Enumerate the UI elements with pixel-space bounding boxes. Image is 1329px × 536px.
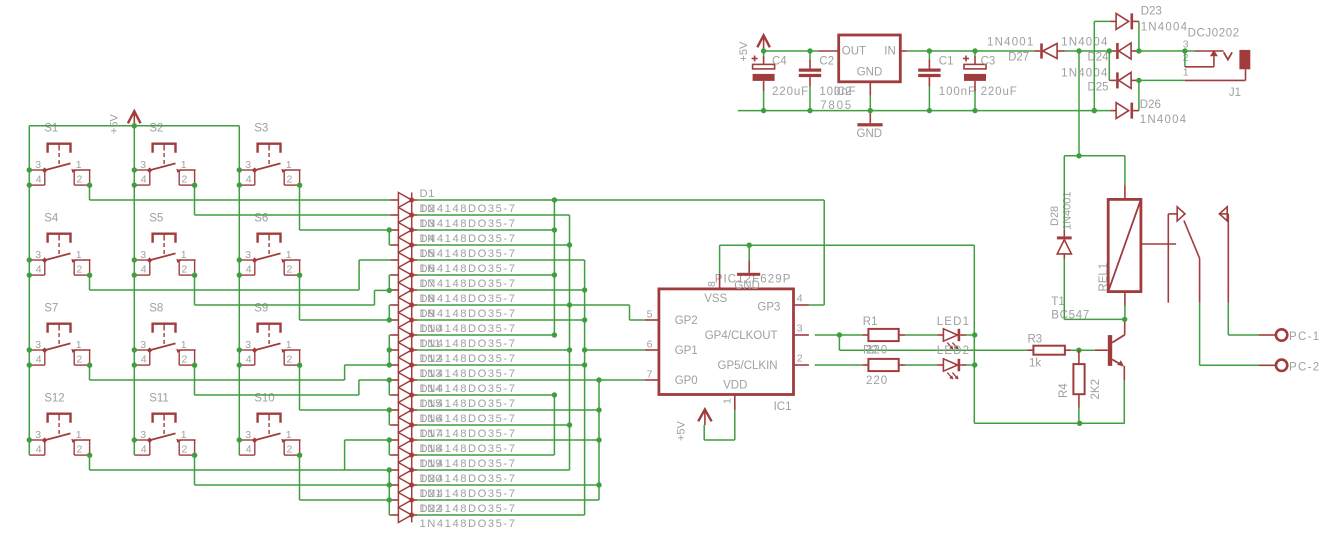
svg-text:4: 4 [36, 264, 42, 276]
wire bridge to J1 pin1 [1139, 79, 1185, 81]
svg-text:OUT: OUT [842, 45, 866, 57]
resistor R2 220 [862, 345, 905, 387]
supply +5V (power) [738, 35, 770, 61]
svg-text:1N4004: 1N4004 [1141, 22, 1188, 34]
svg-text:7: 7 [647, 368, 653, 380]
connector J1 DCJ0202 [1183, 27, 1251, 99]
svg-text:S12: S12 [44, 392, 64, 404]
svg-text:4: 4 [36, 174, 42, 186]
svg-text:1: 1 [76, 159, 82, 171]
switch S12 [29, 392, 90, 455]
svg-text:GP1: GP1 [675, 345, 698, 357]
svg-text:IC2: IC2 [834, 86, 852, 98]
diode D22 1N4148DO35-7 [390, 503, 516, 530]
svg-text:+5V: +5V [738, 41, 750, 62]
wire bridge to J1 pin3 [1139, 48, 1195, 53]
svg-text:D18: D18 [420, 443, 443, 455]
wire contact to PC-1 [1228, 303, 1259, 335]
wire R1 to LED1 [905, 334, 937, 336]
svg-text:1: 1 [76, 339, 82, 351]
wire GP4 to R1 and R3 [815, 332, 1027, 350]
supply +5V (keypad) [109, 111, 141, 134]
svg-text:D4: D4 [420, 233, 436, 245]
wire R2 to LED2 [905, 364, 937, 366]
diode D15 1N4148DO35-7 [390, 398, 516, 425]
svg-text:4: 4 [246, 444, 252, 456]
supply +5V (VDD) [676, 409, 735, 441]
svg-text:3: 3 [245, 339, 251, 351]
wire R3 to T1 base [1071, 348, 1095, 353]
svg-text:C4: C4 [772, 55, 787, 67]
diode D8 1N4148DO35-7 [390, 293, 516, 320]
capacitor C2 100nF [799, 51, 857, 111]
svg-text:GND: GND [857, 66, 883, 78]
svg-text:D28: D28 [1049, 206, 1061, 226]
svg-text:2: 2 [287, 444, 293, 456]
svg-text:R2: R2 [863, 345, 878, 357]
diode D23 1N4004 [1110, 6, 1188, 34]
switch S7 [29, 302, 90, 365]
svg-text:LED2: LED2 [937, 345, 971, 357]
svg-text:R1: R1 [863, 316, 878, 328]
svg-text:1N4001: 1N4001 [987, 37, 1034, 49]
svg-text:C1: C1 [939, 55, 954, 67]
svg-text:+5V: +5V [676, 420, 688, 441]
svg-text:S11: S11 [149, 392, 169, 404]
diode D13 1N4148DO35-7 [390, 368, 516, 395]
diode D27 1N4001 [987, 37, 1065, 64]
svg-text:4: 4 [141, 264, 147, 276]
svg-text:2: 2 [287, 354, 293, 366]
svg-text:D6: D6 [420, 263, 436, 275]
svg-text:3: 3 [35, 249, 41, 261]
relay REL1 coil [1098, 185, 1176, 305]
svg-text:6: 6 [647, 338, 653, 350]
svg-text:D15: D15 [420, 398, 443, 410]
svg-text:220uF: 220uF [772, 86, 809, 98]
diode D14 1N4148DO35-7 [390, 383, 516, 410]
wire V1a [417, 200, 557, 338]
svg-text:2: 2 [287, 174, 293, 186]
svg-text:S1: S1 [44, 122, 58, 134]
wire D27 to bridge [1065, 48, 1109, 53]
svg-text:2: 2 [77, 444, 83, 456]
svg-text:1: 1 [76, 429, 82, 441]
svg-text:R4: R4 [1058, 383, 1070, 398]
diode D3 1N4148DO35-7 [390, 218, 516, 245]
svg-text:VDD: VDD [723, 380, 747, 392]
svg-text:4: 4 [246, 354, 252, 366]
svg-text:1: 1 [1183, 66, 1189, 78]
svg-text:2: 2 [182, 354, 188, 366]
svg-text:D21: D21 [420, 488, 443, 500]
wire GP5 to R2 [815, 364, 863, 366]
svg-text:GP2: GP2 [675, 315, 698, 327]
svg-text:220: 220 [866, 375, 888, 387]
svg-text:3: 3 [140, 159, 146, 171]
LED LED2 [937, 345, 971, 380]
diode D20 1N4148DO35-7 [390, 473, 516, 500]
svg-text:D17: D17 [420, 428, 443, 440]
wire +5V bus to switch columns [29, 126, 239, 455]
svg-text:D23: D23 [1141, 6, 1162, 18]
wire T1 emitter to GND rail [1123, 381, 1125, 424]
switch S11 [134, 392, 195, 455]
relay contact (NC) [1219, 207, 1228, 303]
svg-text:GND: GND [857, 128, 883, 140]
svg-text:PC-2: PC-2 [1289, 361, 1320, 373]
svg-text:1: 1 [286, 159, 292, 171]
regulator IC2 7805 [819, 35, 908, 112]
svg-text:4: 4 [36, 444, 42, 456]
wire GND bus [738, 108, 1110, 113]
relay contact (NO) [1168, 207, 1199, 303]
svg-text:3: 3 [140, 429, 146, 441]
svg-text:1N4004: 1N4004 [1140, 114, 1187, 126]
svg-text:DCJ0202: DCJ0202 [1188, 27, 1240, 39]
svg-text:100nF: 100nF [939, 86, 976, 98]
svg-text:D20: D20 [420, 473, 443, 485]
svg-text:D9: D9 [420, 308, 436, 320]
transistor T1 BC547 [1051, 296, 1124, 381]
svg-text:GP0: GP0 [675, 375, 698, 387]
svg-text:+5V: +5V [109, 113, 121, 134]
svg-text:D27: D27 [1008, 52, 1029, 64]
svg-text:D14: D14 [420, 383, 443, 395]
svg-text:8: 8 [706, 281, 718, 287]
svg-text:D24: D24 [1087, 52, 1109, 64]
wire relay bottom [1124, 306, 1126, 320]
svg-text:3: 3 [245, 159, 251, 171]
svg-text:7805: 7805 [820, 100, 853, 112]
svg-text:S7: S7 [44, 302, 58, 314]
svg-text:3: 3 [140, 339, 146, 351]
diode D4 1N4148DO35-7 [390, 233, 516, 260]
svg-text:1N4004: 1N4004 [1061, 67, 1108, 79]
wire net GP1 V3 [417, 260, 645, 515]
diode D18 1N4148DO35-7 [390, 443, 516, 470]
svg-text:4: 4 [141, 174, 147, 186]
svg-text:1N4148DO35-7: 1N4148DO35-7 [420, 518, 517, 530]
wire bridge left risers [1092, 21, 1112, 113]
svg-text:1: 1 [181, 339, 187, 351]
switch S1 [29, 122, 90, 185]
wire D28 net [1064, 156, 1127, 322]
svg-text:D19: D19 [420, 458, 443, 470]
wire S1 to D1 [90, 185, 391, 200]
svg-text:2K2: 2K2 [1090, 379, 1102, 399]
svg-text:4: 4 [246, 264, 252, 276]
svg-text:D26: D26 [1140, 99, 1161, 111]
svg-text:D16: D16 [420, 413, 443, 425]
ground GND (IC1) [734, 245, 760, 292]
svg-text:1N4001: 1N4001 [1062, 191, 1074, 230]
diode D28 1N4001 [1049, 191, 1074, 258]
svg-text:D2: D2 [420, 203, 436, 215]
svg-text:D10: D10 [420, 323, 443, 335]
svg-text:2: 2 [77, 174, 83, 186]
svg-text:LED1: LED1 [937, 316, 971, 328]
wire V1b D14 D18 [417, 392, 557, 455]
svg-text:C2: C2 [819, 55, 834, 67]
svg-text:D22: D22 [420, 503, 443, 515]
wire contact to PC-2 [1200, 303, 1259, 366]
svg-text:S8: S8 [149, 302, 163, 314]
svg-text:1k: 1k [1029, 357, 1041, 369]
junction dots switch pin2 [87, 183, 302, 458]
wire IN rail [907, 48, 1034, 53]
svg-text:GP4/CLKOUT: GP4/CLKOUT [705, 330, 778, 342]
svg-text:S9: S9 [254, 302, 268, 314]
svg-text:D8: D8 [420, 293, 436, 305]
svg-text:4: 4 [246, 174, 252, 186]
wire +5V rail [761, 48, 819, 53]
svg-text:3: 3 [140, 249, 146, 261]
svg-text:3: 3 [245, 249, 251, 261]
connector PC-1 [1259, 329, 1320, 343]
ground GND (power) [857, 111, 883, 140]
resistor R1 220 [862, 316, 905, 357]
svg-text:2: 2 [797, 352, 803, 364]
svg-text:S3: S3 [254, 122, 268, 134]
wire VSS GND net [720, 243, 1125, 426]
svg-text:S10: S10 [254, 392, 274, 404]
switch S4 [29, 212, 90, 275]
diode D25 1N4004 [1061, 67, 1139, 93]
wire S10 to D21 D22 [300, 455, 392, 515]
wire net GP3 top [417, 197, 824, 305]
switch S6 [239, 212, 300, 275]
svg-text:1: 1 [286, 339, 292, 351]
diode D26 1N4004 [1110, 99, 1187, 126]
svg-text:1: 1 [286, 429, 292, 441]
svg-text:D3: D3 [420, 218, 436, 230]
diode D1 1N4148DO35-7 [390, 188, 516, 215]
svg-text:D1: D1 [420, 188, 436, 200]
svg-text:2: 2 [182, 444, 188, 456]
diode D21 1N4148DO35-7 [390, 488, 516, 515]
wire S5 to D6 D7 [195, 275, 392, 305]
diode D24 1N4004 [1061, 37, 1139, 64]
wire bridge right risers [1136, 21, 1141, 110]
diode D19 1N4148DO35-7 [390, 458, 516, 485]
wire S8 to D13 D14 [195, 365, 392, 395]
svg-text:GND: GND [734, 280, 760, 292]
svg-text:R3: R3 [1028, 334, 1043, 346]
IC IC1 PIC12F629P [645, 274, 809, 414]
connector PC-2 [1259, 360, 1320, 374]
svg-text:4: 4 [797, 292, 803, 304]
svg-text:T1: T1 [1051, 296, 1064, 308]
resistor R4 2K2 [1058, 350, 1102, 423]
svg-text:REL1: REL1 [1098, 263, 1110, 292]
svg-text:C3: C3 [981, 55, 996, 67]
svg-text:2: 2 [287, 264, 293, 276]
wire net GP2 V2 [417, 215, 645, 470]
svg-text:1N4004: 1N4004 [1061, 37, 1108, 49]
svg-text:1: 1 [76, 249, 82, 261]
wire S4 to D5 [90, 260, 391, 290]
svg-text:3: 3 [35, 159, 41, 171]
svg-text:S6: S6 [254, 212, 268, 224]
svg-text:3: 3 [245, 429, 251, 441]
wire S9 to D15 D16 [300, 365, 392, 425]
wire S2 to D2 [195, 185, 391, 215]
svg-text:D25: D25 [1087, 82, 1108, 94]
svg-text:3: 3 [35, 429, 41, 441]
svg-text:2: 2 [1183, 52, 1189, 64]
wire LED1 to GND [966, 334, 975, 336]
svg-text:4: 4 [36, 354, 42, 366]
svg-text:3: 3 [1183, 38, 1189, 50]
svg-text:J1: J1 [1229, 87, 1241, 99]
capacitor C4 220uF [752, 51, 810, 111]
diode D12 1N4148DO35-7 [390, 353, 516, 380]
diode D2 1N4148DO35-7 [390, 203, 516, 230]
diode D16 1N4148DO35-7 [390, 413, 516, 440]
switch S10 [239, 392, 300, 455]
svg-text:S2: S2 [149, 122, 163, 134]
svg-text:S4: S4 [44, 212, 59, 224]
svg-text:1: 1 [181, 249, 187, 261]
svg-text:D7: D7 [420, 278, 436, 290]
LED LED1 [937, 316, 971, 350]
svg-text:D13: D13 [420, 368, 443, 380]
wire net GP0 V4 [417, 377, 645, 500]
svg-text:3: 3 [35, 339, 41, 351]
svg-text:2: 2 [182, 264, 188, 276]
svg-text:2: 2 [182, 174, 188, 186]
svg-text:IC1: IC1 [774, 401, 792, 413]
svg-text:IN: IN [884, 45, 896, 57]
svg-text:3: 3 [797, 322, 803, 334]
diode D10 1N4148DO35-7 [390, 323, 516, 350]
svg-text:1: 1 [181, 429, 187, 441]
svg-text:D11: D11 [420, 338, 442, 350]
svg-text:GP5/CLKIN: GP5/CLKIN [718, 360, 778, 372]
capacitor C3 220uF [963, 51, 1018, 111]
svg-text:5: 5 [647, 308, 653, 320]
wire LED2 to GND [966, 364, 975, 366]
junction dots switch columns [27, 123, 242, 443]
wire S6 to D8 D9 [300, 275, 392, 322]
switch S2 [134, 122, 195, 185]
switch S8 [134, 302, 195, 365]
svg-text:1: 1 [181, 159, 187, 171]
wire relay top [1064, 51, 1125, 185]
svg-text:2: 2 [77, 264, 83, 276]
switch S3 [239, 122, 300, 185]
capacitor C1 100nF [918, 51, 976, 111]
wire S3 to D3 D4 [300, 185, 392, 245]
wire S12 to D17 D18 [90, 437, 392, 472]
svg-text:1: 1 [286, 249, 292, 261]
switch S5 [134, 212, 195, 275]
svg-text:GP3: GP3 [757, 301, 780, 313]
svg-text:2: 2 [77, 354, 83, 366]
diode D7 1N4148DO35-7 [390, 278, 516, 305]
wire S7 to D10 D11 D12 [90, 335, 392, 380]
svg-text:220uF: 220uF [981, 86, 1018, 98]
svg-text:D5: D5 [420, 248, 436, 260]
svg-text:4: 4 [141, 444, 147, 456]
diode D6 1N4148DO35-7 [390, 263, 516, 290]
diode D9 1N4148DO35-7 [390, 308, 516, 335]
diode D17 1N4148DO35-7 [390, 428, 516, 455]
svg-text:VSS: VSS [704, 293, 727, 305]
svg-text:PC-1: PC-1 [1289, 331, 1320, 343]
svg-text:1: 1 [722, 398, 734, 404]
svg-text:4: 4 [141, 354, 147, 366]
svg-text:D12: D12 [420, 353, 443, 365]
wire S11 to D19 D20 [195, 455, 392, 487]
diode D5 1N4148DO35-7 [390, 248, 516, 275]
switch S9 [239, 302, 300, 365]
resistor R3 1k [1027, 334, 1071, 370]
svg-text:S5: S5 [149, 212, 163, 224]
diode D11 1N4148DO35-7 [390, 338, 516, 365]
